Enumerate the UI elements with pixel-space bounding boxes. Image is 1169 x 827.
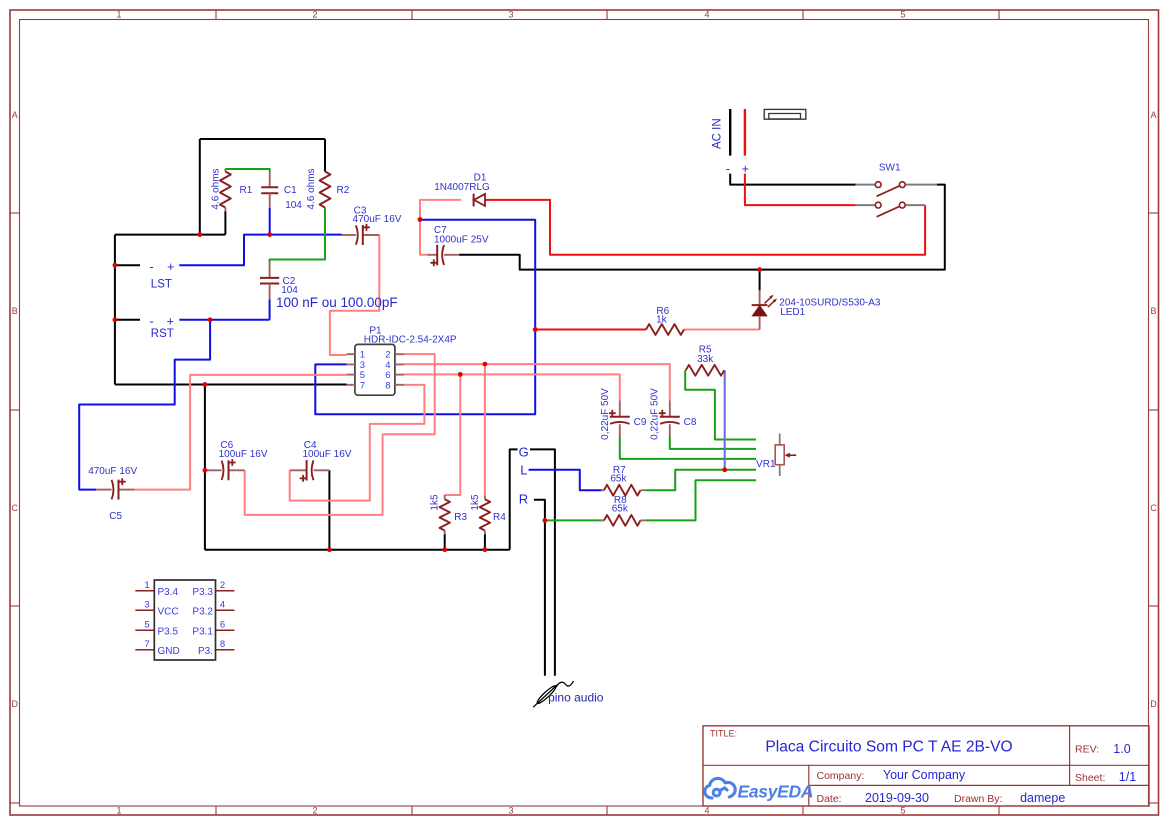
svg-text:A: A [1150,110,1156,120]
svg-text:P3.: P3. [198,646,213,657]
svg-text:2: 2 [312,10,317,20]
svg-text:C9: C9 [634,417,647,428]
svg-text:33k: 33k [697,354,714,365]
svg-text:EasyEDA: EasyEDA [738,781,814,801]
svg-text:1: 1 [116,806,121,816]
svg-text:C: C [1150,503,1157,513]
svg-text:Company:: Company: [817,770,865,782]
svg-text:B: B [12,306,18,316]
svg-text:LED1: LED1 [780,307,805,318]
svg-text:100uF 16V: 100uF 16V [303,449,352,460]
svg-text:P3.1: P3.1 [192,627,213,638]
svg-text:3: 3 [508,806,513,816]
svg-text:+: + [742,162,749,176]
svg-text:65k: 65k [612,504,629,515]
svg-text:TITLE:: TITLE: [710,729,737,739]
svg-text:1k5: 1k5 [470,494,481,511]
svg-text:5: 5 [900,10,905,20]
svg-text:SW1: SW1 [879,162,901,173]
svg-text:65k: 65k [610,474,627,485]
svg-text:8: 8 [385,380,390,391]
svg-text:C8: C8 [684,417,697,428]
svg-text:L: L [520,462,527,477]
svg-text:7: 7 [144,639,149,650]
svg-text:HDR-IDC-2.54-2X4P: HDR-IDC-2.54-2X4P [364,334,457,345]
svg-text:REV:: REV: [1075,744,1099,756]
svg-text:-: - [150,260,154,274]
svg-text:R4: R4 [493,512,506,523]
svg-text:4: 4 [704,10,709,20]
svg-text:P3.2: P3.2 [192,607,213,618]
svg-text:R1: R1 [240,185,253,196]
svg-text:RST: RST [151,328,174,340]
svg-text:D: D [11,699,18,709]
svg-text:AC IN: AC IN [711,118,723,149]
svg-text:Placa Circuito Som PC T AE 2B-: Placa Circuito Som PC T AE 2B-VO [765,739,1012,756]
svg-text:0,22uF 50V: 0,22uF 50V [650,388,661,440]
svg-text:100uF 16V: 100uF 16V [219,449,268,460]
svg-text:1N4007RLG: 1N4007RLG [434,182,490,193]
svg-text:P3.5: P3.5 [158,627,179,638]
svg-text:B: B [1150,306,1156,316]
svg-text:3: 3 [144,600,149,611]
svg-text:D: D [1150,699,1157,709]
svg-text:R: R [519,492,528,507]
svg-text:R3: R3 [454,512,467,523]
svg-text:VCC: VCC [158,607,179,618]
svg-text:2: 2 [220,580,225,591]
svg-text:2: 2 [312,806,317,816]
svg-text:6: 6 [220,620,225,631]
svg-text:5: 5 [144,620,149,631]
svg-text:4: 4 [220,600,225,611]
svg-text:LST: LST [151,279,172,291]
svg-text:Drawn By:: Drawn By: [954,793,1002,805]
svg-text:4: 4 [704,806,709,816]
svg-text:1k5: 1k5 [430,494,441,511]
svg-text:damepe: damepe [1020,791,1065,805]
svg-text:100 nF ou 100.00pF: 100 nF ou 100.00pF [276,295,398,310]
svg-text:Your Company: Your Company [883,768,966,782]
svg-text:4.6 ohms: 4.6 ohms [211,168,222,209]
svg-text:1/1: 1/1 [1119,770,1136,784]
svg-text:1.0: 1.0 [1113,742,1130,756]
svg-text:pino audio: pino audio [548,691,604,705]
svg-text:3: 3 [508,10,513,20]
svg-text:G: G [519,444,529,459]
svg-text:A: A [12,110,18,120]
svg-text:4.6 ohms: 4.6 ohms [306,168,317,209]
svg-text:P3.4: P3.4 [158,587,179,598]
svg-text:+: + [167,315,174,329]
svg-text:470uF 16V: 470uF 16V [353,214,402,225]
svg-text:1: 1 [116,10,121,20]
svg-text:-: - [726,162,730,176]
svg-text:Date:: Date: [817,793,842,805]
svg-text:C1: C1 [284,185,297,196]
svg-text:C: C [11,503,18,513]
svg-text:1: 1 [144,580,149,591]
svg-text:-: - [150,315,154,329]
svg-text:P3.3: P3.3 [192,587,213,598]
svg-text:470uF 16V: 470uF 16V [88,466,137,477]
svg-text:R2: R2 [337,185,350,196]
svg-text:C5: C5 [109,511,122,522]
svg-text:1000uF 25V: 1000uF 25V [434,235,489,246]
svg-text:VR1: VR1 [756,459,776,470]
svg-text:104: 104 [285,200,302,211]
svg-text:2019-09-30: 2019-09-30 [865,791,929,805]
svg-text:7: 7 [360,380,365,391]
svg-text:1k: 1k [656,315,668,326]
svg-text:5: 5 [900,806,905,816]
svg-text:8: 8 [220,639,225,650]
svg-text:+: + [167,260,174,274]
svg-text:0,22uF 50V: 0,22uF 50V [600,388,611,440]
svg-text:Sheet:: Sheet: [1075,772,1105,784]
svg-text:GND: GND [158,646,180,657]
